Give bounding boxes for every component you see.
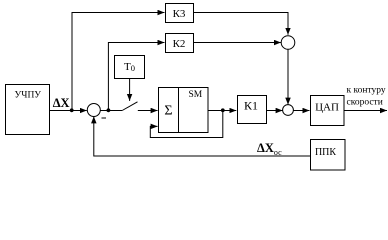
block K1 [238, 96, 267, 124]
svg-text:ППК: ППК [315, 147, 336, 158]
svg-text:ΔX: ΔX [53, 96, 70, 110]
svg-text:ЦАП: ЦАП [315, 102, 339, 114]
svg-text:Σ: Σ [164, 104, 172, 119]
wire K2 output to junction circle [194, 42, 281, 44]
wire T0 control arrow to switch [129, 79, 131, 101]
node at SM output [221, 108, 225, 112]
wire ЦАП output [344, 110, 387, 112]
junction circle top right [281, 36, 295, 50]
minus sign of summing junction 1 [102, 117, 107, 119]
svg-text:К1: К1 [244, 99, 258, 113]
summing junction 2 [283, 105, 294, 116]
svg-text:К3: К3 [173, 8, 186, 20]
wire ППК feedback to summing junction 1 [94, 116, 311, 156]
wire summing junction 2 to ЦАП [293, 110, 309, 112]
block УЧПУ [6, 85, 50, 135]
svg-text:УЧПУ: УЧПУ [15, 91, 42, 101]
wire K1 to summing junction 2 [267, 110, 283, 112]
wire K3 output to junction circle [194, 13, 289, 35]
node on ΔX line [70, 108, 74, 112]
block ЦАП [311, 96, 345, 126]
wire junction circle to summing junction 2 [287, 49, 289, 104]
summing junction 1 [87, 104, 100, 117]
svg-text:скорости: скорости [347, 98, 383, 108]
svg-text:ΔXос: ΔXос [257, 141, 282, 157]
label к контуру скорости [347, 86, 386, 108]
block K2 [166, 34, 194, 53]
switch lever [122, 102, 137, 111]
block ППК [311, 140, 346, 171]
svg-text:SM: SM [189, 90, 203, 100]
block K3 [166, 4, 194, 23]
svg-text:к контуру: к контуру [347, 86, 386, 96]
node after summing junction 1 [107, 108, 111, 112]
svg-text:Т0: Т0 [124, 61, 135, 73]
block T0 [115, 56, 145, 79]
wire SM output to K1 [208, 110, 236, 112]
wire SM feedback loop [150, 111, 223, 138]
wire riser to K2 input [108, 43, 164, 111]
svg-text:К2: К2 [173, 38, 186, 50]
wire switch to sigma block [138, 110, 158, 112]
wire summing junction 1 to switch [100, 110, 122, 112]
wire riser node to K3 input [72, 13, 165, 111]
wire УЧПУ to summing junction 1 [50, 110, 87, 112]
block sigma SM [159, 88, 209, 133]
